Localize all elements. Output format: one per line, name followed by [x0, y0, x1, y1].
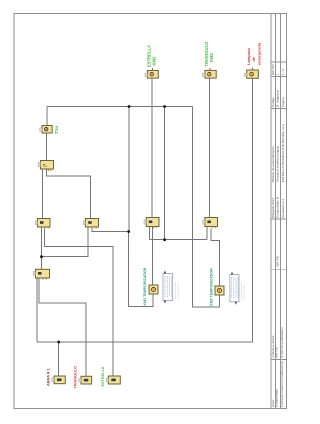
relay coil box E: [203, 218, 218, 229]
svg-text:9 mits les publicidad n: 9 mits les publicidad n: [280, 327, 284, 358]
lamp H1 (top row 3): [244, 70, 258, 78]
svg-text:emergencia: emergencia: [256, 42, 261, 65]
svg-text:Comprobado: Comprobado: [275, 389, 279, 407]
wire: bus left drop to S0 pushbutton: [46, 107, 48, 126]
motor coil box 3 (bottom row): [106, 376, 120, 384]
wire: S0 to Tu timer: [46, 133, 48, 161]
note box N1: [163, 271, 178, 304]
label Lampara de emergencia (red): [246, 42, 261, 65]
wire: comp1 top stub: [151, 68, 153, 71]
wire: bus dot2 drop to rail: [164, 107, 166, 240]
node: bottom bus junction: [57, 341, 60, 344]
svg-text:TRIANGULO: TRIANGULO: [73, 366, 77, 389]
relay coil box A: [35, 219, 50, 230]
svg-text:ABRA R 1: ABRA R 1: [46, 368, 50, 386]
svg-text:KM2 TEMPORIZADOR: KM2 TEMPORIZADOR: [210, 268, 214, 306]
wire: rail between box D and box E: [150, 239, 207, 241]
svg-text:Modelo de automatizacion: Modelo de automatizacion: [271, 146, 275, 182]
wire: junction to box B bottom: [42, 227, 89, 257]
wire: box A main down to box C: [41, 227, 43, 269]
contact KM2 (top row 1): [145, 71, 158, 79]
wire: bottom bus: [37, 341, 253, 343]
svg-text:1 / 4: 1 / 4: [281, 69, 285, 75]
wire: box E main down to rail: [206, 227, 208, 240]
wire: box A pin path down to box 3: [45, 229, 113, 377]
function block S2: [215, 286, 224, 295]
node: box B pin junction: [127, 230, 130, 233]
wire: comp2 top stub: [209, 68, 211, 70]
title block column lines (right strip): [270, 14, 272, 409]
label KM2 ESTRELLA (green): [146, 45, 156, 67]
relay coil box D: [144, 218, 159, 229]
wire: box D pin down to rail: [149, 227, 151, 240]
wire: comp2 drop to box E: [208, 78, 210, 218]
svg-text:Arranque estrella triangulo: Arranque estrella triangulo: [276, 145, 280, 182]
wire: Tu pin right path to box B: [47, 169, 91, 219]
svg-text:Fecha de creacion (modificacio: Fecha de creacion (modificacion): [280, 361, 284, 407]
motor coil box 2 (bottom row): [79, 376, 92, 384]
wire: box C pin path to box 2: [39, 279, 86, 377]
wire: box C main down to bottom bus: [36, 278, 38, 342]
wire: comp1 drop to box D (crosses bus): [151, 78, 153, 218]
title block row dividers: [271, 61, 287, 63]
relay coil box C: [33, 269, 49, 280]
node: left column junction: [40, 255, 43, 258]
note box N2: [230, 272, 244, 305]
svg-text:Comprobado el: Comprobado el: [276, 197, 280, 218]
relay coil box B: [83, 219, 98, 230]
svg-text:Aprobado el 1: Aprobado el 1: [281, 198, 285, 218]
wire: Tu main down to box A: [42, 169, 44, 219]
wire: box B pin to dot on line: [92, 229, 129, 232]
pushbutton S0: [40, 126, 53, 134]
node: rail junction: [163, 238, 166, 241]
node: bus junction 2: [163, 105, 166, 108]
node: bus junction 1: [128, 105, 131, 108]
svg-text:WA 700: WA 700: [275, 347, 279, 358]
svg-text:Pagina: Pagina: [281, 97, 285, 107]
function block S1: [149, 285, 158, 294]
title block rotated texts: [271, 64, 285, 407]
timer relay Tu: [38, 161, 53, 172]
svg-text:KM3: KM3: [209, 52, 214, 62]
wire: top bus: [47, 106, 193, 108]
contact KM3 (top row 2): [202, 70, 216, 78]
label KM3 TRIANGULO (green): [204, 41, 214, 67]
svg-text:T1u: T1u: [54, 126, 59, 134]
svg-text:Lampara: Lampara: [246, 48, 251, 65]
svg-text:ESTRELLA: ESTRELLA: [101, 366, 105, 386]
svg-text:1: 1: [276, 73, 280, 75]
wire: bus dot drop to box 1: [58, 342, 60, 376]
svg-text:KM2: KM2: [151, 56, 156, 66]
wire: box D second pin down to S1 block: [152, 227, 154, 285]
motor coil box 1 (bottom row): [52, 376, 66, 384]
svg-text:Dibujado 2014: Dibujado 2014: [271, 198, 275, 218]
svg-text:WA 700: WA 700: [276, 256, 280, 267]
svg-text:N° diagrama: N° diagrama: [276, 89, 280, 107]
wire: bus dot1 drop: [128, 107, 130, 232]
svg-text:Codigo: Codigo: [271, 97, 275, 107]
wire: bus right end down and to S2 block bottom: [193, 107, 220, 308]
drawing border frame: [14, 14, 287, 409]
wire: comp3 drop to bottom bus: [252, 78, 254, 342]
svg-text:WA 700: WA 700: [271, 64, 275, 75]
svg-text:KM1 TEMPORIZADOR: KM1 TEMPORIZADOR: [143, 267, 147, 305]
svg-text:ESTRELLA TRIANGULO BLOQUEO, se: ESTRELLA TRIANGULO BLOQUEO, se a: [281, 124, 285, 183]
wire: box E pin to S2 block top: [211, 229, 220, 287]
wire: line down to S1 block bottom: [129, 232, 153, 307]
wire: comp3 top stub: [252, 68, 254, 71]
